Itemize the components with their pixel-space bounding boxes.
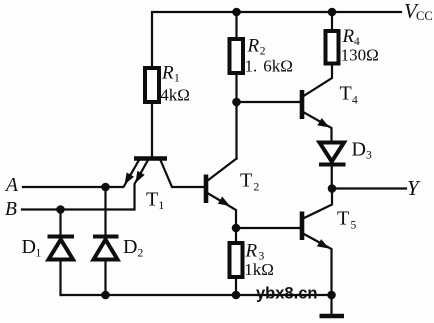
svg-text:R: R (247, 36, 260, 57)
svg-text:1.: 1. (245, 57, 258, 76)
svg-text:1: 1 (174, 73, 180, 85)
svg-text:1: 1 (159, 200, 165, 212)
svg-text:A: A (4, 175, 18, 196)
svg-text:6kΩ: 6kΩ (263, 57, 293, 76)
svg-text:4: 4 (352, 95, 358, 107)
svg-text:Y: Y (407, 176, 421, 200)
svg-text:T: T (240, 170, 252, 192)
svg-text:ybx8.cn: ybx8.cn (256, 285, 317, 303)
svg-text:2: 2 (138, 248, 144, 260)
svg-text:1kΩ: 1kΩ (244, 260, 274, 279)
svg-text:T: T (337, 208, 349, 230)
svg-text:4kΩ: 4kΩ (160, 86, 190, 105)
svg-text:R: R (161, 63, 174, 84)
svg-text:130Ω: 130Ω (341, 46, 379, 65)
svg-text:D: D (22, 236, 36, 258)
svg-text:1: 1 (36, 248, 42, 260)
svg-text:2: 2 (254, 182, 260, 194)
svg-text:T: T (146, 189, 158, 211)
svg-text:T: T (340, 82, 352, 104)
svg-text:D: D (123, 236, 137, 258)
svg-text:B: B (5, 199, 17, 220)
svg-text:D: D (352, 139, 366, 161)
svg-text:CC: CC (416, 9, 433, 23)
svg-text:5: 5 (351, 220, 357, 232)
svg-text:R: R (342, 26, 355, 47)
svg-text:3: 3 (366, 150, 372, 162)
svg-text:R: R (245, 241, 258, 262)
